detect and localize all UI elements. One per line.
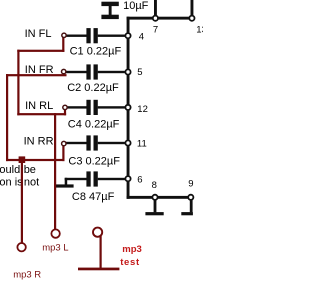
wire red RL stub — [64, 110, 66, 116]
node pin 7 — [153, 16, 158, 21]
terminal IN RL — [63, 105, 67, 109]
terminal IN FR — [62, 69, 66, 73]
wire red mp3 L drop — [54, 113, 56, 230]
svg-text:7: 7 — [153, 24, 158, 35]
wire red mp3 test stem — [100, 236, 102, 269]
node pin 8 — [152, 195, 157, 200]
wire red mp3 R drop — [21, 159, 23, 243]
wire red FL vertical — [17, 50, 19, 116]
svg-text:5: 5 — [137, 67, 142, 78]
svg-text:be: be — [24, 164, 36, 176]
wire top rail — [127, 17, 192, 20]
wire red left-channel horizontal — [17, 113, 66, 115]
wire stub up from pin 13 — [191, 0, 194, 18]
svg-text:C1 0.22µF: C1 0.22µF — [70, 46, 122, 58]
wire lead row2 FR to C2 — [66, 71, 87, 73]
capacitor C9 10uF — [101, 0, 148, 19]
node pin 11 — [125, 140, 130, 145]
wire C8 to pin 6 — [98, 178, 126, 180]
wire C3 to pin 11 — [98, 142, 126, 144]
wire lead row3 RL to C4 — [66, 106, 87, 108]
capacitor C1 0.22uF — [86, 28, 97, 43]
svg-text:on is: on is — [0, 177, 23, 189]
svg-text:9: 9 — [188, 179, 193, 190]
wire lead row1 FL to C1 — [66, 35, 87, 37]
svg-text:IN FL: IN FL — [25, 28, 52, 40]
svg-text:12: 12 — [137, 104, 148, 115]
capacitor C3 0.22uF — [86, 135, 97, 150]
svg-text:IN RL: IN RL — [25, 100, 53, 112]
wire C4 to pin 12 — [98, 106, 126, 108]
svg-text:test: test — [120, 257, 140, 268]
ground stub pin 9 — [190, 200, 193, 212]
capacitor C2 0.22uF — [86, 64, 97, 79]
terminal mp3 L — [51, 229, 59, 237]
terminal IN RR — [62, 141, 66, 145]
ground bar C8 — [55, 184, 73, 187]
svg-text:C4 0.22µF: C4 0.22µF — [68, 119, 120, 131]
svg-text:C3 0.22µF: C3 0.22µF — [68, 156, 120, 168]
wire C8 ground stub — [65, 178, 68, 185]
svg-text:mp3 R: mp3 R — [13, 269, 41, 280]
node pin 12 — [125, 105, 130, 110]
svg-text:ould: ould — [0, 164, 20, 176]
wire red FR horizontal — [6, 74, 67, 76]
node pin 6 — [125, 176, 130, 181]
node pin 9 — [188, 195, 193, 200]
terminal mp3 test — [93, 228, 102, 237]
svg-text:13: 13 — [196, 24, 203, 35]
node pin 4 — [125, 33, 130, 38]
node pin 13 — [189, 16, 194, 21]
ground bar pin 9 — [181, 212, 193, 215]
svg-text:mp3 L: mp3 L — [42, 243, 68, 254]
svg-text:11: 11 — [137, 139, 147, 150]
svg-text:8: 8 — [152, 180, 157, 191]
svg-text:IN RR: IN RR — [24, 135, 54, 147]
wire C1 to pin 4 — [98, 35, 126, 37]
svg-text:C2 0.22µF: C2 0.22µF — [67, 82, 119, 94]
wire red mp3 test bar — [78, 268, 119, 271]
svg-text:C8 47µF: C8 47µF — [72, 191, 115, 203]
junction dot red — [19, 156, 26, 163]
capacitor C4 0.22uF — [86, 100, 97, 115]
wire red FL horizontal — [17, 50, 64, 52]
wire red right-channel horizontal — [6, 159, 65, 161]
wire red FR vertical — [6, 74, 8, 161]
node pin 5 — [125, 69, 130, 74]
wire lead C8 left — [65, 178, 87, 180]
svg-text:mp3: mp3 — [122, 244, 142, 255]
svg-text:not: not — [24, 177, 39, 189]
wire red FL drop — [62, 37, 64, 52]
wire C2 to pin 5 — [98, 71, 126, 73]
ground bar pin 8 — [145, 212, 163, 215]
wire bottom rail — [127, 196, 191, 199]
svg-text:6: 6 — [137, 174, 142, 185]
ground stub pin 8 — [154, 200, 157, 212]
capacitor C8 47uF — [86, 171, 97, 186]
terminal IN FL — [62, 33, 66, 37]
wire lead row4 RR to C3 — [66, 142, 87, 144]
svg-text:4: 4 — [139, 32, 144, 43]
wire red RR drop — [62, 146, 64, 161]
svg-text:10µF: 10µF — [123, 0, 149, 12]
terminal mp3 R — [17, 243, 25, 251]
wire vertical bus — [127, 17, 130, 199]
wire stub up from pin 7 — [154, 0, 157, 18]
